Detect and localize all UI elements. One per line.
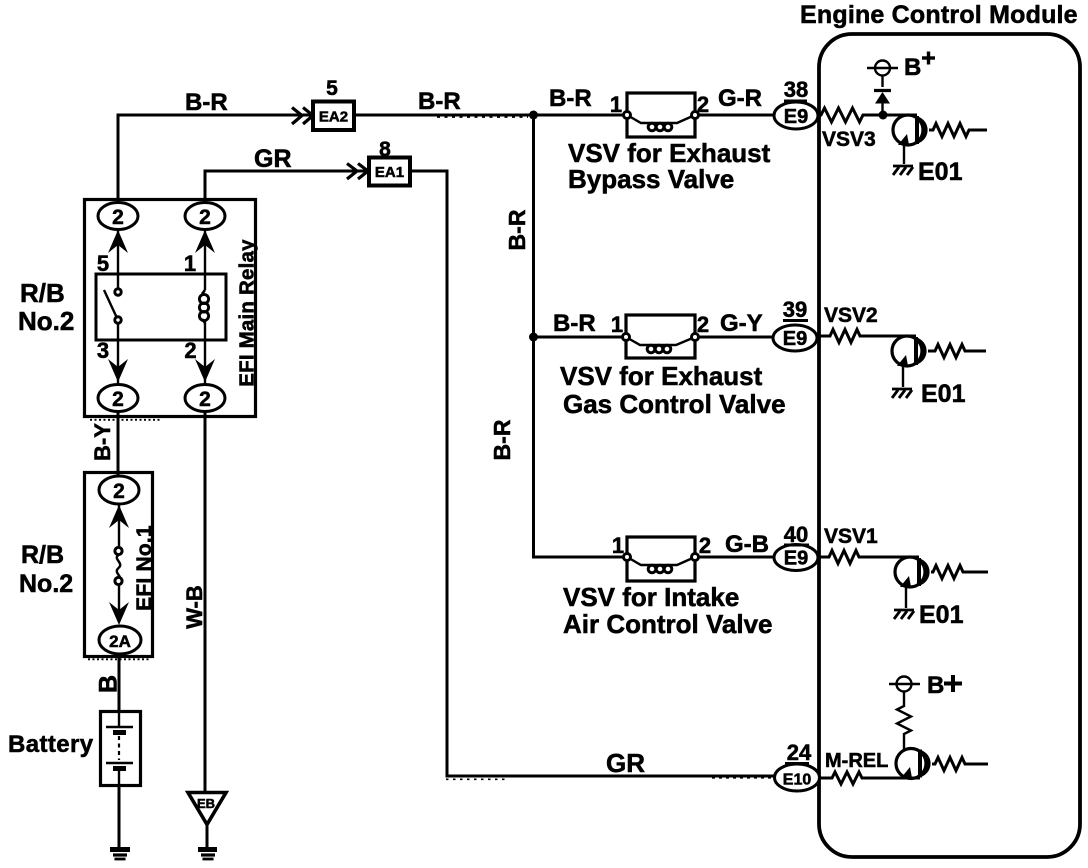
- svg-text:VSV for Intake: VSV for Intake: [563, 582, 739, 612]
- svg-text:Bypass Valve: Bypass Valve: [568, 164, 734, 194]
- svg-text:1: 1: [611, 312, 623, 337]
- svg-text:VSV for Exhaust: VSV for Exhaust: [560, 361, 763, 391]
- svg-text:2: 2: [697, 92, 709, 117]
- svg-text:8: 8: [379, 138, 391, 161]
- svg-text:VSV3: VSV3: [822, 128, 876, 151]
- svg-text:G-R: G-R: [718, 85, 762, 112]
- svg-text:38: 38: [784, 77, 808, 102]
- svg-text:VSV1: VSV1: [824, 525, 878, 548]
- svg-text:Gas Control Valve: Gas Control Valve: [563, 389, 786, 419]
- svg-text:No.2: No.2: [18, 306, 74, 336]
- svg-text:R/B: R/B: [21, 541, 64, 569]
- svg-text:GR: GR: [606, 748, 645, 778]
- svg-text:G-B: G-B: [725, 531, 769, 558]
- svg-text:B-R: B-R: [504, 209, 530, 250]
- svg-text:2: 2: [199, 388, 211, 411]
- svg-text:EFI Main Relay: EFI Main Relay: [236, 239, 259, 387]
- svg-text:2: 2: [699, 533, 711, 558]
- svg-text:2: 2: [113, 480, 125, 503]
- svg-text:5: 5: [326, 77, 338, 100]
- svg-text:2: 2: [112, 206, 124, 229]
- svg-text:Engine Control Module: Engine Control Module: [800, 1, 1078, 29]
- svg-text:39: 39: [783, 297, 807, 322]
- svg-text:Air Control Valve: Air Control Valve: [563, 609, 773, 639]
- svg-text:Battery: Battery: [8, 731, 94, 758]
- svg-text:E10: E10: [783, 772, 812, 789]
- svg-text:W-B: W-B: [182, 585, 207, 629]
- svg-text:2: 2: [199, 206, 211, 229]
- svg-text:2: 2: [184, 338, 196, 363]
- svg-text:1: 1: [184, 251, 196, 276]
- svg-text:E9: E9: [783, 328, 807, 350]
- svg-text:1: 1: [612, 533, 624, 558]
- svg-text:B: B: [927, 672, 944, 699]
- svg-text:EB: EB: [197, 796, 215, 811]
- svg-text:EA2: EA2: [319, 109, 348, 126]
- svg-text:E01: E01: [921, 380, 966, 408]
- svg-text:2: 2: [697, 312, 709, 337]
- svg-text:EFI No.1: EFI No.1: [133, 525, 156, 611]
- svg-text:24: 24: [787, 740, 812, 765]
- svg-text:E9: E9: [784, 548, 808, 570]
- svg-text:R/B: R/B: [20, 278, 65, 308]
- svg-text:GR: GR: [254, 145, 292, 173]
- svg-text:B-R: B-R: [185, 89, 228, 116]
- svg-text:2: 2: [112, 388, 124, 411]
- svg-text:B: B: [904, 54, 921, 81]
- svg-text:E9: E9: [784, 106, 808, 128]
- svg-text:M-REL: M-REL: [825, 750, 888, 772]
- svg-text:B-R: B-R: [418, 88, 461, 115]
- svg-text:VSV2: VSV2: [824, 304, 878, 327]
- svg-text:B-R: B-R: [549, 85, 592, 112]
- svg-text:G-Y: G-Y: [720, 310, 763, 337]
- svg-text:1: 1: [610, 92, 622, 117]
- svg-text:3: 3: [97, 338, 109, 363]
- svg-text:B-R: B-R: [489, 419, 515, 460]
- svg-text:5: 5: [97, 251, 109, 276]
- svg-text:B-Y: B-Y: [90, 423, 115, 461]
- svg-text:B-R: B-R: [553, 310, 596, 337]
- svg-text:EA1: EA1: [375, 164, 404, 181]
- svg-text:40: 40: [784, 522, 808, 547]
- svg-text:E01: E01: [919, 601, 964, 629]
- svg-text:E01: E01: [918, 158, 963, 186]
- svg-text:2A: 2A: [109, 632, 131, 651]
- svg-text:No.2: No.2: [19, 570, 73, 598]
